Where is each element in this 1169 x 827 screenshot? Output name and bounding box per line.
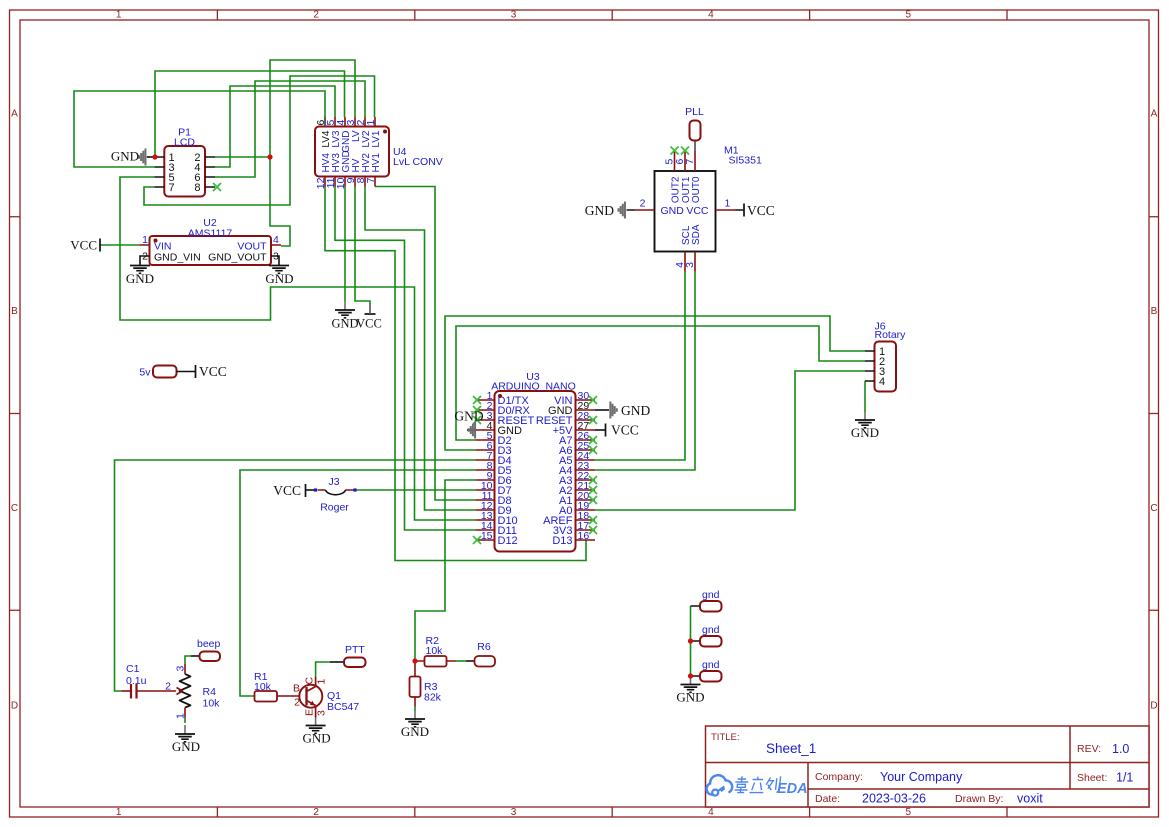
svg-text:OUT2: OUT2 xyxy=(671,176,682,203)
svg-text:4: 4 xyxy=(879,376,885,388)
svg-text:1: 1 xyxy=(725,198,731,210)
svg-text:82k: 82k xyxy=(424,692,442,704)
junction at 415,661 xyxy=(412,658,417,663)
wire net P1.3 to U4.6 xyxy=(74,91,325,167)
svg-text:TITLE:: TITLE: xyxy=(711,732,740,743)
wire net U4.12 to U3.D13 xyxy=(325,187,586,561)
no-connect X U3 right pin y=480 xyxy=(589,476,597,484)
svg-text:SI5351: SI5351 xyxy=(729,155,762,167)
potentiometer R4 10k xyxy=(165,664,220,719)
svg-text:C: C xyxy=(11,503,18,514)
svg-text:Date:: Date: xyxy=(815,793,840,805)
no-connect X U3 right pin y=400 xyxy=(589,396,597,404)
svg-text:R6: R6 xyxy=(477,641,491,653)
svg-text:voxit: voxit xyxy=(1017,792,1043,806)
svg-text:GND_VIN: GND_VIN xyxy=(154,252,201,264)
svg-text:gnd: gnd xyxy=(702,624,720,636)
svg-text:B: B xyxy=(11,306,18,317)
JLCEDA logo xyxy=(707,775,808,797)
wire gnd tags bus xyxy=(690,606,692,676)
wire U4.9 to VCC flag xyxy=(355,187,370,306)
svg-text:HV1: HV1 xyxy=(371,153,382,173)
svg-text:EDA: EDA xyxy=(777,781,808,797)
svg-text:GND_VOUT: GND_VOUT xyxy=(208,252,267,264)
wire net U3.D3 to J6.1 xyxy=(445,316,865,450)
svg-text:GND: GND xyxy=(676,690,704,705)
ground symbol R3 xyxy=(414,711,416,719)
wire J6.4 to GND xyxy=(864,381,866,412)
svg-text:A: A xyxy=(11,108,18,119)
svg-text:3: 3 xyxy=(316,710,328,716)
wire net P1.6 to U4.2 xyxy=(215,81,365,177)
svg-text:B: B xyxy=(1151,306,1158,317)
svg-text:R4: R4 xyxy=(203,686,217,698)
svg-text:10k: 10k xyxy=(426,645,444,657)
ground symbol gnd tags xyxy=(690,676,692,685)
svg-text:D: D xyxy=(1150,701,1157,712)
no-connect X M1.6 xyxy=(681,147,689,155)
jumper J3 Roger xyxy=(306,476,357,514)
net tag PTT xyxy=(344,658,366,668)
no-connect X U3 left pin y=400 xyxy=(473,396,481,404)
net tag gnd 2 xyxy=(700,636,722,647)
svg-text:4: 4 xyxy=(708,10,714,21)
junction at 155,157 xyxy=(152,154,157,159)
svg-text:OUT0: OUT0 xyxy=(691,176,702,203)
ground flag U3.4 xyxy=(467,429,476,431)
wire net P1.5 to U3.D10 xyxy=(120,177,476,520)
wire net SCL M1.4 to U3.A5 xyxy=(595,272,685,461)
wire net P1.2/U4.3 xyxy=(215,60,355,157)
svg-text:3: 3 xyxy=(684,262,696,268)
svg-text:10k: 10k xyxy=(254,681,272,693)
level converter U4 LvL CONV xyxy=(315,117,443,189)
svg-text:GND: GND xyxy=(331,317,358,331)
svg-text:Drawn By:: Drawn By: xyxy=(955,793,1003,805)
wire R4 bottom xyxy=(184,718,186,724)
wire R3 bottom xyxy=(414,707,416,712)
svg-text:0.1u: 0.1u xyxy=(126,675,147,687)
svg-text:gnd: gnd xyxy=(702,659,720,671)
svg-text:Your Company: Your Company xyxy=(880,770,963,784)
svg-text:D: D xyxy=(11,701,18,712)
wire PTT black stub xyxy=(330,661,344,663)
no-connect X U3 left pin y=420 xyxy=(473,416,481,424)
svg-text:5: 5 xyxy=(906,807,912,818)
net tag 5v to VCC xyxy=(153,366,177,378)
wire R6 black stub xyxy=(466,660,475,662)
svg-text:BC547: BC547 xyxy=(327,701,359,713)
wire net SDA M1.3 to U3.A4 xyxy=(595,272,695,471)
no-connect X U3.15 xyxy=(473,536,481,544)
wire beep to R4.3 xyxy=(185,656,191,664)
svg-text:5: 5 xyxy=(906,10,912,21)
svg-text:GND: GND xyxy=(621,403,650,418)
wire net U4.11 to U3.D11 xyxy=(335,187,476,531)
svg-text:4: 4 xyxy=(708,807,714,818)
svg-text:GND: GND xyxy=(661,205,685,217)
svg-text:VCC: VCC xyxy=(747,203,775,218)
wire net P1.4 to U4.5 xyxy=(215,86,335,167)
svg-text:7: 7 xyxy=(169,182,175,194)
clock gen M1 SI5351 xyxy=(627,141,762,272)
svg-text:PLL: PLL xyxy=(685,106,704,118)
svg-text:A: A xyxy=(1151,108,1158,119)
wire net U4.7 to U3.D8 xyxy=(375,187,476,501)
svg-text:3: 3 xyxy=(511,807,517,818)
ground symbol U2.GND_VIN xyxy=(130,266,150,274)
svg-text:1.0: 1.0 xyxy=(1112,742,1129,756)
svg-text:5v: 5v xyxy=(139,367,151,379)
svg-text:VCC: VCC xyxy=(199,364,227,379)
svg-text:AMS1117: AMS1117 xyxy=(188,228,233,240)
wire net P1.7 to U4.1 xyxy=(144,76,375,205)
svg-text:10k: 10k xyxy=(203,698,221,710)
ground symbol R4.1 xyxy=(184,725,186,734)
svg-text:VCC: VCC xyxy=(686,205,709,217)
svg-text:GND: GND xyxy=(851,425,879,440)
svg-text:GND: GND xyxy=(172,739,200,754)
wire net U3.D5 to R1 xyxy=(240,470,476,696)
svg-text:1: 1 xyxy=(142,234,148,246)
junction at 690.5,676 xyxy=(688,673,693,678)
resonator PLL xyxy=(690,121,701,141)
svg-text:D12: D12 xyxy=(498,535,518,547)
resistor R1 10k xyxy=(255,691,278,702)
no-connect X U3 right pin y=530 xyxy=(589,526,597,534)
svg-text:GND: GND xyxy=(265,271,293,286)
svg-text:REV:: REV: xyxy=(1077,743,1101,755)
no-connect X U3 right pin y=440 xyxy=(589,436,597,444)
wire Q1.C to PTT xyxy=(316,662,330,677)
svg-text:GND: GND xyxy=(303,731,331,746)
svg-text:VCC: VCC xyxy=(70,238,97,253)
svg-text:J3: J3 xyxy=(328,476,339,488)
svg-text:beep: beep xyxy=(197,638,221,650)
VCC flag U4.9 xyxy=(365,313,376,315)
svg-text:E: E xyxy=(304,709,316,716)
svg-text:1: 1 xyxy=(116,807,122,818)
wire net J3 to U3.D7 xyxy=(356,489,476,491)
svg-text:LvL CONV: LvL CONV xyxy=(393,156,443,168)
svg-text:3: 3 xyxy=(273,251,279,263)
svg-text:GND: GND xyxy=(454,409,483,424)
wire net U4.8 to U3.D9 xyxy=(365,187,476,511)
wire gnd tag stubs xyxy=(691,606,701,676)
svg-text:1: 1 xyxy=(365,120,377,126)
resistor R3 82k xyxy=(410,677,421,698)
svg-text:D13: D13 xyxy=(552,535,572,547)
VCC flag at U2.VIN xyxy=(99,239,101,252)
no-connect X U3 right pin y=420 xyxy=(589,416,597,424)
ground symbol Q1.E xyxy=(315,718,317,726)
svg-text:2023-03-26: 2023-03-26 xyxy=(862,792,926,806)
ground flag M1.2 xyxy=(619,202,625,219)
svg-text:Sheet_1: Sheet_1 xyxy=(766,741,816,756)
svg-text:Roger: Roger xyxy=(320,502,349,514)
VCC flag J3 xyxy=(305,484,307,497)
ground flag P1.1 xyxy=(147,156,155,158)
wire net U3.D4 to C1 xyxy=(115,460,476,691)
svg-text:15: 15 xyxy=(481,530,493,542)
wire net GND: P1.1 to U4.4 xyxy=(155,71,345,157)
svg-text:1: 1 xyxy=(116,10,122,21)
no-connect X U3 right pin y=490 xyxy=(589,486,597,494)
svg-text:2: 2 xyxy=(313,10,319,21)
no-connect X M1.5 xyxy=(671,147,679,155)
no-connect X U3 right pin y=520 xyxy=(589,516,597,524)
svg-text:4: 4 xyxy=(273,234,279,246)
svg-text:3: 3 xyxy=(175,666,187,672)
regulator U2 AMS1117 xyxy=(140,217,282,266)
net tag beep xyxy=(200,652,221,662)
svg-text:VCC: VCC xyxy=(273,483,301,498)
svg-text:1: 1 xyxy=(316,679,328,685)
junction at 270,157 xyxy=(267,154,272,159)
svg-text:LCD: LCD xyxy=(174,137,195,149)
wire U4.10 to GND flag xyxy=(344,187,346,302)
svg-text:C1: C1 xyxy=(126,663,140,675)
svg-text:gnd: gnd xyxy=(702,589,720,601)
transistor Q1 BC547 xyxy=(293,677,359,718)
no-connect X P1.8 xyxy=(213,183,221,191)
ground symbol J6.4 xyxy=(864,412,866,420)
svg-text:VCC: VCC xyxy=(611,423,639,438)
svg-text:Company:: Company: xyxy=(815,771,863,783)
ground symbol U2.GND_VOUT xyxy=(269,266,289,274)
svg-text:3: 3 xyxy=(511,10,517,21)
VCC flag M1.1 xyxy=(743,204,745,217)
svg-text:C: C xyxy=(304,677,316,685)
svg-text:B: B xyxy=(293,683,300,695)
svg-text:GND: GND xyxy=(126,271,154,286)
svg-text:Rotary: Rotary xyxy=(875,329,907,341)
svg-text:8: 8 xyxy=(194,182,200,194)
svg-text:2: 2 xyxy=(165,681,171,693)
svg-text:1/1: 1/1 xyxy=(1116,771,1133,785)
svg-text:7: 7 xyxy=(684,159,696,165)
svg-text:2: 2 xyxy=(294,697,300,709)
resistor R2 10k xyxy=(425,656,447,667)
connector P1 LCD xyxy=(154,127,215,197)
svg-text:GND: GND xyxy=(401,724,429,739)
net tag gnd 1 xyxy=(700,601,722,612)
connector J6 Rotary xyxy=(865,321,906,392)
wire net U3.A0 to J6.3 xyxy=(595,371,865,510)
svg-text:7: 7 xyxy=(365,177,377,183)
svg-text:C: C xyxy=(1150,503,1157,514)
svg-text:16: 16 xyxy=(578,530,590,542)
wire net U3.D6 to R2/R3 xyxy=(415,480,476,661)
svg-text:PTT: PTT xyxy=(345,644,365,656)
svg-text:GND: GND xyxy=(585,203,614,218)
no-connect X U3 right pin y=450 xyxy=(589,446,597,454)
svg-text:2: 2 xyxy=(640,198,646,210)
svg-text:2: 2 xyxy=(142,251,148,263)
title block xyxy=(706,726,1150,807)
svg-text:SDA: SDA xyxy=(691,224,702,245)
wire R2 to R6 xyxy=(456,660,466,662)
capacitor C1 0.1u xyxy=(122,663,177,699)
resistor R6 xyxy=(475,656,496,667)
wire VCC to U2.VIN xyxy=(100,244,140,246)
net tag gnd 3 xyxy=(700,671,722,682)
ground symbol U4.10 xyxy=(344,301,346,310)
svg-text:LV1: LV1 xyxy=(371,130,382,147)
ground flag U3.29 xyxy=(595,409,609,411)
svg-text:VCC: VCC xyxy=(356,317,382,331)
wire beep black stub xyxy=(191,655,200,657)
wire net U3.D2 to J6.2 xyxy=(456,326,865,440)
no-connect X U3 right pin y=500 xyxy=(589,496,597,504)
wire net P1.2 to U2.VOUT xyxy=(270,157,290,246)
svg-text:2: 2 xyxy=(313,807,319,818)
VCC flag U3.27 xyxy=(595,429,605,431)
junction at 690.5,641 xyxy=(688,638,693,643)
svg-text:ARDUINO_NANO: ARDUINO_NANO xyxy=(491,381,576,393)
svg-text:1: 1 xyxy=(175,713,187,719)
svg-text:GND: GND xyxy=(111,149,139,164)
svg-text:Sheet:: Sheet: xyxy=(1077,772,1107,784)
mcu U3 ARDUINO_NANO xyxy=(476,371,596,552)
no-connect X U3 left pin y=410 xyxy=(473,406,481,414)
